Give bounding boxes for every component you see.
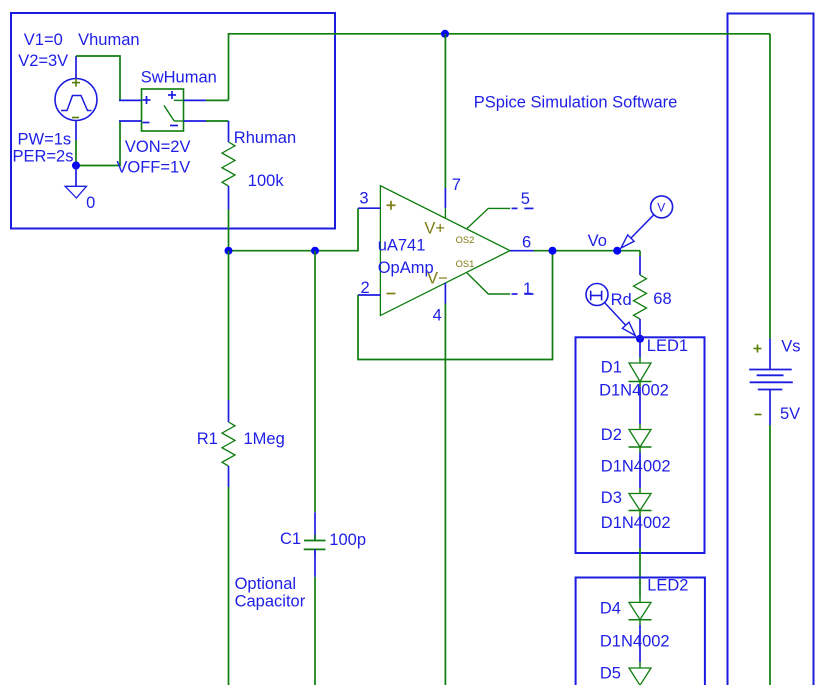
svg-text:C1: C1 — [280, 530, 301, 548]
node ground junction — [72, 162, 80, 170]
op-amp OS1 pin1 — [466, 272, 510, 294]
svg-text:VOFF=1V: VOFF=1V — [116, 159, 190, 177]
diode D5 — [629, 668, 651, 685]
svg-text:4: 4 — [433, 307, 442, 325]
svg-text:Vhuman: Vhuman — [78, 31, 139, 49]
svg-text:Optional: Optional — [235, 575, 296, 593]
node junction C1 — [311, 247, 319, 255]
wire C1 column — [314, 251, 316, 513]
svg-text:LED2: LED2 — [647, 576, 688, 594]
wire Vo corner down — [639, 251, 641, 256]
svg-text:V1=0: V1=0 — [24, 31, 63, 49]
diode D2 — [629, 430, 651, 448]
svg-text:D1N4002: D1N4002 — [601, 458, 671, 476]
svg-text:Vs: Vs — [781, 338, 800, 356]
op-amp minus mark — [387, 293, 396, 295]
wire node row to op-amp pin3 — [229, 208, 359, 251]
svg-text:D5: D5 — [600, 665, 621, 683]
LED1 box — [576, 337, 705, 553]
node top rail junction — [441, 30, 449, 38]
wire D3 to LED2 — [639, 516, 641, 548]
svg-text:100p: 100p — [329, 531, 366, 549]
svg-text:OS1: OS1 — [456, 258, 475, 269]
svg-text:VON=2V: VON=2V — [125, 138, 191, 156]
svg-text:68: 68 — [653, 290, 671, 308]
svg-text:6: 6 — [522, 234, 531, 252]
svg-text:SwHuman: SwHuman — [141, 68, 217, 86]
diode D1 — [629, 363, 651, 382]
svg-text:D4: D4 — [600, 600, 621, 618]
wire battery drop — [769, 34, 771, 339]
resistor R1 — [228, 400, 230, 422]
wire into D4 — [639, 597, 641, 602]
svg-text:Rhuman: Rhuman — [234, 129, 296, 147]
svg-text:Vo: Vo — [588, 232, 607, 250]
wire ground node to switch minus — [76, 121, 120, 166]
svg-text:5: 5 — [521, 190, 530, 208]
svg-text:D1N4002: D1N4002 — [599, 382, 669, 400]
svg-text:7: 7 — [452, 176, 461, 194]
op-amp pin4 stub — [444, 283, 446, 304]
svg-text:Rd: Rd — [611, 291, 632, 309]
switch pin stubs — [119, 99, 142, 101]
svg-text:LED1: LED1 — [647, 337, 688, 355]
wire output to Vo — [534, 250, 641, 252]
op-amp pin7 stub — [444, 188, 446, 208]
svg-text:D2: D2 — [601, 426, 622, 444]
capacitor C1 — [314, 512, 316, 540]
svg-text:D1N4002: D1N4002 — [601, 514, 671, 532]
svg-text:PSpice Simulation Software: PSpice Simulation Software — [474, 94, 678, 112]
op-amp pin2 stub — [358, 294, 380, 296]
diode D4 — [629, 602, 651, 619]
svg-text:0: 0 — [86, 194, 95, 212]
svg-text:2: 2 — [361, 279, 370, 297]
node LED1 junction — [636, 335, 644, 343]
wire R1 column — [228, 251, 230, 400]
svg-text:100k: 100k — [248, 172, 285, 190]
node Vo junction — [613, 247, 621, 255]
diode D3 — [629, 494, 651, 511]
LED2 box — [576, 578, 705, 685]
wire pin2 feedback — [358, 251, 553, 360]
op-amp OS2 pin5 — [467, 208, 511, 229]
battery plus mark — [754, 348, 762, 350]
wire pin7 rail — [444, 34, 446, 188]
op-amp pin3 stub — [358, 207, 380, 209]
ground 0 — [75, 166, 77, 187]
wire switch to Rhuman — [206, 120, 229, 122]
wire switch to rail riser — [206, 99, 229, 101]
switch SwHuman — [142, 89, 184, 131]
svg-text:D1N4002: D1N4002 — [600, 633, 670, 651]
battery Vs — [769, 339, 771, 370]
svg-text:OpAmp: OpAmp — [378, 259, 434, 277]
wire top rail — [229, 34, 771, 101]
op-amp plus mark — [387, 204, 396, 206]
wire pin4 down — [444, 304, 446, 685]
wire D2 to D3 — [639, 453, 641, 489]
node junction R1 — [225, 247, 233, 255]
svg-text:1Meg: 1Meg — [244, 430, 285, 448]
wire source top to switch — [76, 56, 120, 100]
right enclosure box — [728, 14, 814, 685]
wire D4 to D5 — [639, 625, 641, 662]
svg-text:5V: 5V — [780, 405, 800, 423]
op-amp U1 triangle — [380, 186, 510, 316]
wire source bottom to ground node — [75, 140, 77, 166]
voltage marker V — [651, 196, 673, 218]
svg-text:3: 3 — [359, 190, 368, 208]
svg-text:OS2: OS2 — [456, 234, 475, 245]
svg-text:D3: D3 — [601, 489, 622, 507]
svg-text:R1: R1 — [197, 430, 218, 448]
svg-text:V2=3V: V2=3V — [18, 52, 68, 70]
svg-text:Capacitor: Capacitor — [235, 593, 306, 611]
current marker H — [586, 284, 608, 306]
wire battery to bottom — [769, 425, 771, 685]
wire Rhuman to node row — [228, 210, 230, 251]
svg-text:PER=2s: PER=2s — [13, 148, 74, 166]
svg-text:PW=1s: PW=1s — [18, 131, 72, 149]
left enclosure box — [11, 13, 335, 229]
wire into D1 — [639, 339, 641, 357]
battery minus mark — [755, 414, 762, 416]
node output junction — [549, 247, 557, 255]
voltage source Vhuman — [55, 79, 97, 121]
op-amp pin6 stub — [510, 250, 534, 252]
svg-text:V: V — [657, 201, 665, 215]
resistor Rhuman — [228, 121, 230, 142]
wire D1 to D2 — [639, 387, 641, 424]
svg-text:V+: V+ — [424, 220, 445, 238]
svg-text:1: 1 — [523, 280, 532, 298]
resistor Rd — [639, 256, 641, 275]
svg-text:uA741: uA741 — [378, 236, 426, 254]
svg-text:D1: D1 — [601, 358, 622, 376]
